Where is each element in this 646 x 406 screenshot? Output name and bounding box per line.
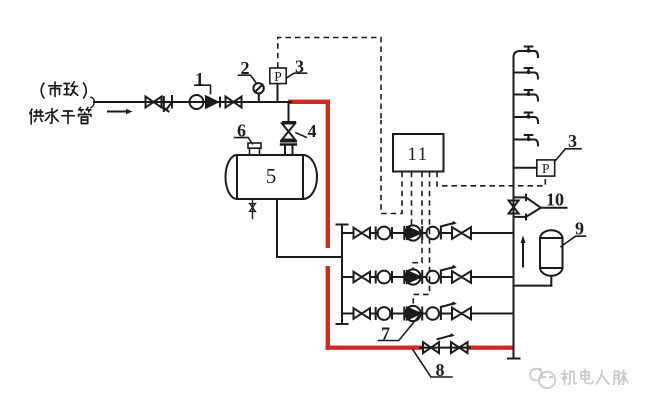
svg-text:3: 3	[568, 131, 577, 151]
svg-text:9: 9	[575, 219, 584, 239]
svg-text:1: 1	[195, 69, 204, 89]
svg-text:5: 5	[266, 164, 277, 188]
svg-text:6: 6	[237, 121, 246, 141]
svg-text:2: 2	[241, 58, 250, 78]
svg-text:8: 8	[436, 360, 445, 380]
svg-text:4: 4	[308, 121, 317, 141]
svg-text:7: 7	[381, 324, 390, 344]
svg-text:P: P	[542, 161, 550, 176]
svg-text:P: P	[274, 69, 282, 84]
svg-text:10: 10	[546, 190, 564, 210]
svg-text:3: 3	[295, 57, 304, 77]
svg-text:11: 11	[407, 144, 428, 165]
